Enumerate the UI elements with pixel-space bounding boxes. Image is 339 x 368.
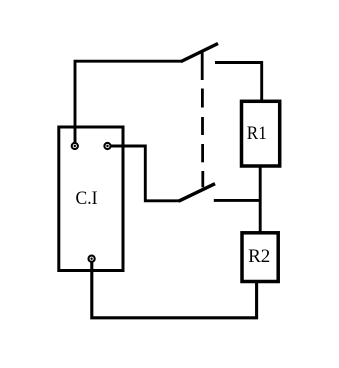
wire pin1 to switch S1 pole	[75, 61, 182, 143]
resistor R1	[242, 101, 280, 166]
wire S2 fixed contact to R1-R2 node	[214, 199, 260, 202]
dashed mechanical link between S1 and S2	[201, 50, 204, 187]
svg-text:C.I: C.I	[76, 188, 98, 209]
switch S1 lever	[181, 44, 218, 62]
wire S1 fixed contact to R1 top	[215, 63, 262, 102]
terminal pin 3 (C.I bottom)	[89, 256, 95, 262]
wire R1 bottom to R2 top	[259, 166, 262, 233]
wire pin2 to switch S2 pole	[110, 146, 179, 201]
svg-text:R1: R1	[247, 123, 267, 144]
wire pin3 to bottom rail to R2 bottom	[92, 262, 257, 318]
svg-text:R2: R2	[248, 246, 270, 267]
terminal pin 1 (C.I top-left)	[72, 143, 78, 149]
resistor R2	[242, 233, 278, 282]
C.I box U1	[59, 127, 123, 271]
switch S2 lever	[179, 184, 215, 202]
terminal pin 2 (C.I top-right)	[104, 143, 110, 149]
